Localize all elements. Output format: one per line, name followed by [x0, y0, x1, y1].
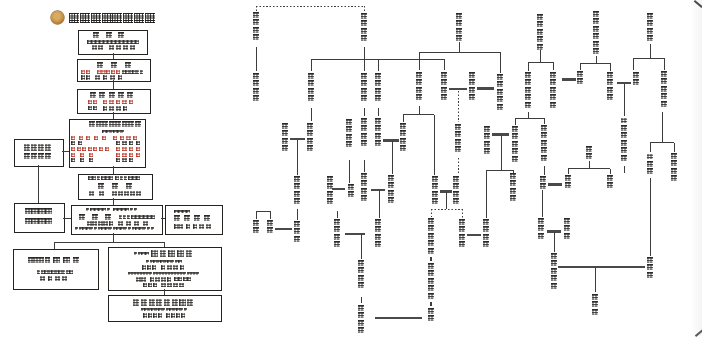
- wire 滋早紀江→めぐみ: [554, 232, 555, 252]
- wire →久邇朝融: [513, 170, 514, 173]
- person 九条豊子: [388, 175, 394, 205]
- wire 鬼一郎 children bar: [650, 142, 674, 143]
- text 関係組織: [24, 153, 52, 159]
- wire 公勝仲子→実勝: [297, 140, 298, 175]
- text 理事長 牧野法観: [143, 283, 186, 288]
- person 笹川良一: [671, 153, 677, 183]
- box 中山宗家関係組織(下): [14, 203, 65, 233]
- box 本願本願寺: [108, 247, 223, 291]
- person 明治天皇: [455, 124, 461, 154]
- wire →忠愛: [364, 59, 365, 71]
- text 皇道會: [97, 62, 139, 68]
- text 山蔭神道第七十世家元: [37, 270, 73, 273]
- wire 実勝→浩: [297, 209, 298, 220]
- wire 貞明皇后=大正天皇: [440, 190, 452, 192]
- person 金正日: [647, 257, 653, 279]
- wire box5-box6: [113, 198, 114, 205]
- box 大日本皇道立教會: [69, 119, 146, 168]
- text 貴嶺殿社寺連合会: [133, 299, 195, 305]
- text 宗教法人: [174, 210, 190, 214]
- person 大谷光瑩: [375, 73, 381, 103]
- person 金正恩: [592, 294, 598, 316]
- person 大正天皇: [453, 176, 459, 206]
- person 方子: [540, 176, 546, 191]
- text 総裁 久邇宮朝彦（明治23年）: [81, 70, 143, 74]
- wire 恵子=道実: [383, 139, 399, 141]
- wire →畑中理: [650, 143, 651, 153]
- text 會員 中山忠英: [88, 106, 130, 111]
- wire →香淳皇后: [486, 170, 487, 218]
- person 高宗: [586, 146, 592, 161]
- wire →笹川良一: [674, 143, 675, 153]
- text 設立者 安殿義尊: [142, 265, 186, 270]
- wire 尚忠 children bar: [419, 52, 500, 53]
- wire →利子: [580, 63, 581, 70]
- wire 有栖川 children bar: [580, 63, 610, 64]
- wire 忠愛→孝麿: [364, 108, 365, 116]
- box 天忠党: [78, 30, 148, 55]
- wire 方子→早紀江: [542, 190, 543, 217]
- wire 宗家下-box6: [63, 218, 71, 219]
- wire →溥傑: [270, 211, 271, 219]
- wire →世弥: [633, 58, 634, 70]
- person 島津俔子: [484, 126, 490, 156]
- wire 慶子=孝明天皇: [449, 88, 467, 90]
- person 上田鬼一郎: [661, 71, 667, 108]
- wire box2-box3: [113, 80, 114, 89]
- wire 尚忠 stem: [459, 42, 460, 52]
- wire 孝子尊紀→尊祐: [361, 234, 362, 259]
- text （平成二十年一月十七日設立）: [141, 308, 188, 311]
- person 横田めぐみ: [551, 253, 557, 290]
- wire 昭和天皇=香淳皇后: [467, 234, 481, 236]
- text 門跡 中山忠徳（帥観）: [136, 277, 191, 282]
- wire 尊統→尊紀: [337, 211, 338, 218]
- text title 貴嶺会関係組織図: [69, 13, 156, 23]
- text （昭和五十六年設立）: [146, 260, 182, 263]
- text 山蔭基央: [40, 276, 69, 281]
- person 嵯峨浩: [294, 221, 300, 243]
- text 會員 中山忠英: [81, 75, 125, 80]
- wire 早紀江=横田滋: [547, 230, 561, 232]
- person 早紀江: [538, 218, 544, 240]
- person 中山忠能: [361, 13, 367, 43]
- text （大正三年）: [102, 130, 124, 134]
- person 上田音吉: [647, 13, 653, 43]
- person 九条道実: [400, 123, 406, 153]
- text 副會長 中山忠宗: [71, 153, 142, 157]
- person 伏見宮貞愛: [550, 72, 556, 109]
- wire 邦家 children bar: [528, 62, 553, 63]
- wire 守正-方子 link: [544, 166, 545, 175]
- wire →貞明皇后: [434, 115, 435, 176]
- person 昭和天皇: [459, 219, 465, 249]
- wire 輔親=豊子: [371, 189, 385, 191]
- text （中山宗家二十八代・山蔭神道第七十九世家元）: [75, 227, 154, 230]
- wire box4-box5: [113, 166, 114, 174]
- wire 明治天皇→大正天皇 (dashed): [458, 158, 459, 175]
- text 天忠党: [93, 32, 131, 38]
- wire →昭和天皇 (dashed): [462, 209, 463, 218]
- wire →三笠宮崇仁 (dashed): [431, 209, 432, 217]
- person 中山慶子: [441, 72, 447, 102]
- wire box6-日心: [161, 218, 165, 219]
- person 中山忠英: [253, 12, 259, 42]
- person 九条道孝: [416, 72, 422, 102]
- box 日心教会: [165, 205, 223, 235]
- wire drop 忠能 (dashed): [364, 6, 365, 12]
- wire →鬼一郎: [664, 58, 665, 70]
- wire 溥傑=嵯峨浩: [275, 228, 292, 230]
- person 千家尊祐: [358, 260, 364, 290]
- person 久邇宮朝彦: [525, 72, 531, 109]
- box 皇道會: [77, 59, 151, 82]
- wire 国麿=典子: [375, 317, 422, 319]
- box 貴嶺会(初代): [78, 174, 153, 200]
- person 久邇朝融: [510, 173, 516, 203]
- person 利子: [577, 71, 583, 86]
- person 中山孝子: [375, 219, 381, 249]
- box 貴嶺殿社寺連合会: [108, 295, 222, 322]
- text 中山宗家: [24, 144, 52, 150]
- wire 光瑩→恵子: [378, 108, 379, 116]
- person 横田滋: [564, 218, 570, 240]
- person 有栖川宮幟仁: [593, 11, 599, 56]
- text 講督長副講督長 千家尊福: [71, 147, 142, 151]
- wire 高宗 children bar: [568, 168, 610, 169]
- person 伏見宮邦家: [537, 14, 543, 51]
- text 代表理事 牧野法観: [143, 313, 186, 318]
- wire 方子=李垠: [548, 183, 562, 185]
- wire 道孝 stem: [419, 106, 420, 114]
- wire →道孝: [419, 52, 420, 70]
- wire 慶子孝明→明治天皇 (dashed): [458, 91, 459, 122]
- text 會頭 土方久元: [71, 141, 142, 145]
- box 中山宗家関係組織(上): [14, 139, 64, 167]
- wire 宗家上-宗家下: [38, 165, 39, 203]
- person 孝明天皇: [469, 72, 475, 102]
- wire drop to 山蔭家: [54, 242, 55, 249]
- person 九条尚忠: [456, 13, 462, 43]
- wire →英照皇太后: [500, 52, 501, 73]
- person 大谷恵子: [375, 118, 381, 148]
- person 英照皇太后: [497, 74, 503, 111]
- person 出口王仁三郎: [621, 118, 627, 163]
- text 教主 石井常立: [174, 224, 214, 228]
- wire box6-bottom stem: [113, 233, 114, 242]
- wire 忠英-忠能 adoption (dashed): [256, 6, 364, 7]
- text （真宗大谷派議会元副議長・東本願寺別院会元議長）: [128, 272, 199, 275]
- wire 上田 children bar: [633, 58, 664, 59]
- person 溥儀: [253, 220, 259, 235]
- person 溥傑: [267, 220, 273, 235]
- wire →溥儀: [256, 211, 257, 219]
- wire drop 忠英 (dashed): [256, 6, 257, 11]
- wire →慶子: [444, 59, 445, 70]
- person 嵯峨実勝: [294, 176, 300, 206]
- wire →純宗: [610, 169, 611, 175]
- wire 鬼一郎 stem: [662, 112, 663, 142]
- wire 宗家上-box4: [62, 151, 69, 152]
- page corner mark top-right: [694, 0, 702, 8]
- text 総裁 伏見宮貞愛: [88, 100, 135, 105]
- text 宗教法人 本願本願寺: [134, 250, 195, 257]
- wire 俔子邦彦 children bar: [486, 170, 513, 171]
- wire 幟仁 stem: [596, 56, 597, 63]
- person 梨本宮守正: [541, 125, 547, 162]
- wire →朝彦: [528, 62, 529, 71]
- wire 朝彦 children bar: [515, 118, 544, 119]
- person 香淳皇后: [483, 219, 489, 249]
- text 中山宗家: [25, 208, 53, 214]
- wire 高宗 stem: [589, 161, 590, 169]
- wire 邦家 stem: [540, 50, 541, 62]
- wire 忠能 stem: [364, 47, 365, 59]
- box 貴嶺殿内山蔭家: [13, 249, 99, 290]
- box 貴嶺会(二代目): [71, 205, 162, 235]
- wire 孝麿→輔親: [364, 160, 365, 172]
- person 中山忠光: [308, 73, 314, 103]
- wire 忠能 children bar: [311, 59, 444, 60]
- wire 俔子=邦彦: [492, 133, 509, 135]
- wire 尊祐-国麿 link: [361, 297, 362, 303]
- text 大日本皇道立教會: [89, 121, 141, 127]
- wire 忠光→仲子: [311, 108, 312, 121]
- seal logo: [51, 11, 64, 24]
- text 貴嶺会（昭和五十四年三月）: [79, 214, 155, 220]
- text 日心教会: [174, 215, 213, 221]
- wire 輔親豊子→孝子: [379, 190, 380, 218]
- text 明治天皇勅裁 中山宗家主宰: [86, 208, 138, 212]
- wire 本願寺-連合会: [164, 289, 165, 295]
- person 千家尊福: [346, 119, 352, 149]
- person 中山忠愛: [361, 73, 367, 103]
- wire 孝明天皇=英照皇太后: [477, 87, 494, 89]
- wire 出口王仁三郎 stub: [624, 166, 625, 173]
- person 千家尊統: [327, 176, 333, 206]
- person 中山仲子: [307, 123, 313, 153]
- wire 公勝=仲子: [290, 138, 305, 140]
- wire drop to 本願寺: [164, 242, 165, 247]
- person 中山孝麿: [361, 118, 367, 148]
- wire 俔子邦彦 stem: [501, 135, 502, 170]
- wire box3-box4: [113, 112, 114, 119]
- wire 貞愛=利子: [562, 78, 576, 80]
- wire 尊福→一子: [349, 160, 350, 183]
- person 熾仁親王: [607, 72, 613, 102]
- wire →金正恩: [595, 267, 596, 292]
- wire →貞愛: [553, 62, 554, 70]
- text 総帥 中山忠伊: [92, 45, 137, 50]
- wire →熾仁親王: [610, 63, 611, 71]
- person 一子: [348, 184, 354, 199]
- text 貴嶺会: [98, 183, 140, 189]
- wire →道実: [403, 115, 404, 123]
- wire bottom split bar: [55, 242, 165, 243]
- wire 溥儀溥傑 bracket: [256, 211, 270, 212]
- wire →李垠: [568, 169, 569, 175]
- text 明治天皇勅裁 中山宗家主宰: [88, 176, 140, 180]
- person 貞明皇后: [432, 176, 438, 206]
- person 李垠: [565, 175, 571, 190]
- text 總裁 中山小夜子: [89, 191, 142, 196]
- page right edge shading: [690, 0, 702, 336]
- person 嵯峨公勝: [282, 123, 288, 153]
- wire box1-box2: [113, 53, 114, 59]
- text 関係組織: [25, 218, 53, 224]
- wire →守正: [544, 118, 545, 124]
- box 皇道立教會: [77, 89, 151, 114]
- text 貴嶺殿内 山蔭家: [28, 257, 83, 264]
- wire 畑中理→金正日: [650, 178, 651, 256]
- wire →光瑩: [378, 59, 379, 71]
- text 皇道立教會: [90, 92, 136, 98]
- text 會長副會頭 中山忠英: [71, 136, 140, 140]
- page corner mark bottom-right: [695, 329, 702, 337]
- wire 恵子道実→豊子: [392, 141, 393, 174]
- person 中山輔親: [361, 173, 367, 203]
- text 二代目總裁 中山忠徳: [87, 221, 151, 226]
- wire 尊紀=孝子: [345, 233, 365, 235]
- person 久邇宮邦彦: [512, 126, 518, 163]
- wire めぐみ=金正日: [558, 266, 645, 268]
- person 世弥: [633, 72, 639, 87]
- wire 忠英→忠宗: [256, 47, 257, 71]
- wire →忠光: [311, 59, 312, 71]
- person 畑中理: [647, 154, 653, 176]
- person 純宗: [607, 175, 613, 190]
- person 千家国麿: [358, 305, 364, 335]
- wire 道孝 children bar: [403, 114, 434, 115]
- text 光格天皇皇子（武生宮諱仁）: [87, 40, 139, 44]
- wire 世弥→出口王仁三郎: [624, 84, 625, 116]
- person 中山忠宗: [253, 73, 259, 103]
- person 三笠宮崇仁ー高円宮憲仁ー典子: [428, 218, 434, 323]
- wire 朝彦 stem: [528, 112, 529, 118]
- wire 熾仁親王=世弥: [617, 82, 631, 84]
- wire 貞明大正 stem: [446, 192, 447, 209]
- wire 音吉 stem: [650, 44, 651, 58]
- person 千家尊紀: [334, 219, 340, 249]
- text 幹事長 圓山鋼: [71, 158, 136, 162]
- wire 大正 children bar (dashed): [431, 209, 462, 210]
- wire →邦彦: [515, 118, 516, 125]
- wire 尊統=一子: [332, 188, 345, 190]
